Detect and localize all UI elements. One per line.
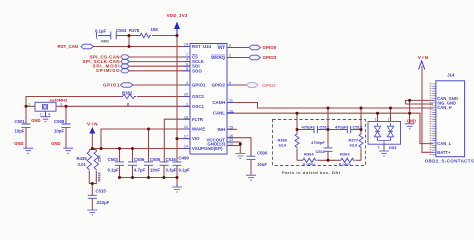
svg-text:INH: INH [217, 127, 225, 132]
svg-text:BATT+: BATT+ [437, 150, 451, 155]
svg-text:VDD_3V3: VDD_3V3 [167, 13, 188, 18]
svg-text:CANL: CANL [213, 111, 226, 116]
svg-text:VIN: VIN [418, 55, 429, 61]
svg-text:OBD2_S-CONTACTS: OBD2_S-CONTACTS [425, 159, 474, 164]
svg-text:11: 11 [229, 99, 233, 103]
svg-text:J14: J14 [447, 73, 455, 78]
svg-text:C515: C515 [96, 189, 107, 194]
svg-text:25K: 25K [98, 155, 102, 162]
svg-text:10uF: 10uF [257, 162, 267, 167]
svg-text:10pF: 10pF [15, 129, 25, 134]
svg-text:2: 2 [229, 54, 231, 58]
svg-text:10pF: 10pF [54, 129, 64, 134]
svg-text:15: 15 [229, 125, 233, 129]
svg-text:GPIO1: GPIO1 [103, 82, 120, 87]
svg-text:WKRQ: WKRQ [211, 55, 225, 60]
svg-text:4.7µF: 4.7µF [134, 168, 145, 173]
svg-text:R366: R366 [278, 137, 288, 142]
svg-text:FLTR: FLTR [192, 117, 204, 122]
svg-text:17: 17 [184, 135, 188, 139]
svg-text:GPIO2: GPIO2 [262, 83, 276, 88]
svg-text:7: 7 [186, 53, 188, 57]
svg-text:3.01: 3.01 [78, 162, 87, 167]
svg-text:D53: D53 [389, 145, 397, 150]
svg-text:WAKE: WAKE [192, 127, 205, 132]
svg-text:1: 1 [186, 102, 188, 106]
svg-text:4: 4 [48, 113, 50, 117]
svg-text:0 ohm: 0 ohm [339, 161, 351, 166]
svg-text:0 ohm: 0 ohm [303, 161, 315, 166]
svg-text:GND: GND [31, 118, 40, 123]
svg-text:4700pF: 4700pF [311, 140, 325, 145]
svg-text:10nF: 10nF [150, 168, 160, 173]
svg-text:470pF: 470pF [335, 125, 347, 130]
svg-text:2: 2 [388, 117, 390, 121]
svg-text:R382: R382 [122, 90, 133, 95]
svg-text:0.1µF: 0.1µF [108, 168, 119, 173]
svg-text:GND: GND [51, 141, 60, 146]
svg-text:RST_CAN: RST_CAN [58, 44, 79, 49]
svg-text:GPIO3: GPIO3 [263, 55, 277, 60]
svg-text:C499: C499 [179, 155, 190, 160]
svg-text:U34: U34 [203, 44, 212, 49]
svg-text:R378: R378 [129, 28, 140, 33]
svg-text:CAN_H: CAN_H [437, 105, 451, 110]
svg-text:3: 3 [186, 81, 188, 85]
svg-text:SOO: SOO [192, 68, 202, 73]
svg-text:5: 5 [186, 67, 188, 71]
svg-text:1: 1 [28, 103, 30, 107]
svg-text:3: 3 [60, 103, 62, 107]
svg-text:C512: C512 [320, 125, 330, 130]
svg-text:12: 12 [184, 125, 188, 129]
svg-text:470pF: 470pF [301, 125, 313, 130]
svg-text:10: 10 [229, 109, 233, 113]
svg-text:62.6: 62.6 [350, 143, 359, 148]
svg-text:CANH: CANH [212, 100, 225, 105]
svg-text:CAN_L: CAN_L [437, 141, 451, 146]
svg-text:VIN: VIN [87, 122, 98, 128]
svg-text:18: 18 [184, 115, 188, 119]
svg-text:INT: INT [218, 45, 225, 50]
svg-text:Parts in dotted box, DNI: Parts in dotted box, DNI [282, 170, 340, 175]
svg-text:C516: C516 [166, 157, 177, 162]
svg-text:GPIO0: GPIO0 [263, 45, 277, 50]
svg-text:GND: GND [14, 141, 23, 146]
svg-text:GPIO1: GPIO1 [192, 83, 206, 88]
svg-text:RST: RST [192, 44, 201, 49]
svg-text:R377: R377 [349, 137, 359, 142]
svg-text:9: 9 [229, 81, 231, 85]
svg-text:OSC2: OSC2 [192, 94, 205, 99]
svg-text:3: 3 [378, 146, 380, 150]
svg-text:20: 20 [184, 93, 188, 97]
svg-text:C504: C504 [116, 28, 127, 33]
svg-text:R364: R364 [304, 151, 314, 156]
svg-text:C511: C511 [316, 149, 326, 154]
svg-text:C505: C505 [150, 157, 161, 162]
svg-text:C513: C513 [353, 125, 363, 130]
svg-text:62.6: 62.6 [279, 143, 288, 148]
svg-text:10K: 10K [151, 27, 160, 32]
svg-text:3.3µF: 3.3µF [166, 168, 177, 173]
svg-text:0.1µF: 0.1µF [179, 168, 190, 173]
svg-text:0.1µF: 0.1µF [95, 29, 106, 34]
svg-text:R435: R435 [77, 156, 88, 161]
svg-text:C500: C500 [257, 151, 268, 156]
svg-text:C503: C503 [108, 157, 119, 162]
svg-text:xo40MHZ: xo40MHZ [50, 98, 69, 103]
svg-text:0402: 0402 [101, 40, 109, 44]
svg-text:19: 19 [184, 43, 188, 47]
svg-text:VIO: VIO [192, 136, 200, 141]
svg-text:.022µF: .022µF [96, 200, 110, 205]
svg-text:6: 6 [186, 62, 188, 66]
svg-text:R363: R363 [340, 151, 350, 156]
svg-text:C506: C506 [134, 157, 145, 162]
svg-text:GND: GND [407, 118, 416, 123]
svg-text:OSC1: OSC1 [192, 104, 205, 109]
svg-text:1: 1 [375, 117, 377, 121]
svg-text:C508: C508 [54, 119, 65, 124]
svg-text:C501: C501 [15, 119, 26, 124]
svg-text:GPIO2: GPIO2 [212, 83, 226, 88]
svg-text:8: 8 [229, 44, 231, 48]
svg-text:R434: R434 [98, 172, 102, 182]
svg-text:VSUPGND(EP): VSUPGND(EP) [192, 146, 223, 151]
svg-text:SPIMISO: SPIMISO [96, 68, 120, 73]
svg-text:2: 2 [40, 113, 42, 117]
svg-text:21: 21 [229, 142, 233, 146]
